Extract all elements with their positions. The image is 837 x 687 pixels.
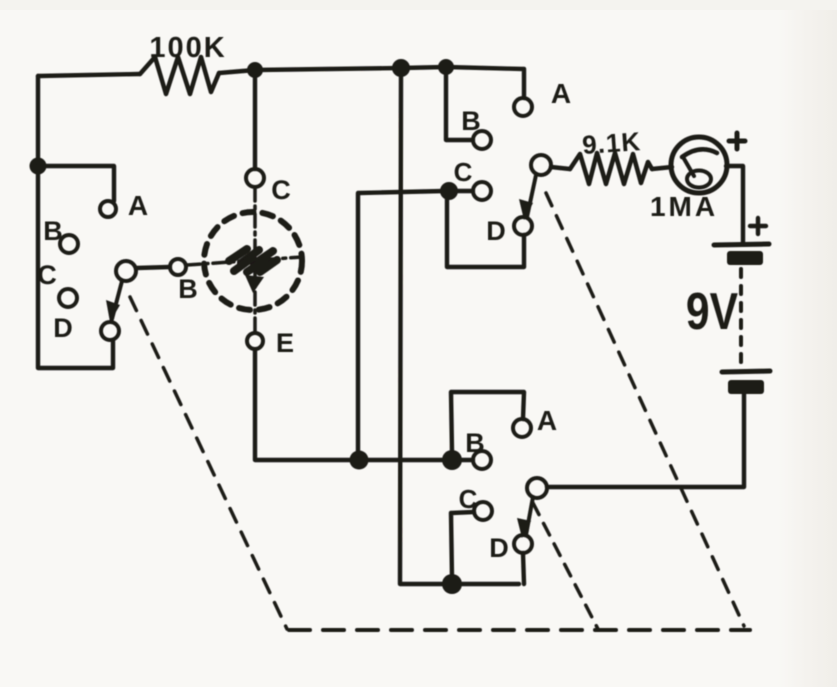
wire R2 to meter — [652, 167, 672, 169]
resistor R2 9.1K — [570, 126, 652, 184]
svg-text:B: B — [178, 274, 198, 304]
svg-text:D: D — [53, 313, 73, 343]
wire top-left horizontal — [38, 74, 140, 76]
wire vertical x358 — [356, 194, 360, 455]
battery B1 top cell plate — [714, 244, 769, 245]
wire J3 to S2 contact B — [446, 75, 473, 140]
wire emitter to bottom bus — [255, 350, 448, 460]
switch S3 contact B — [473, 451, 491, 469]
svg-text:A: A — [128, 190, 148, 221]
svg-text:C: C — [454, 157, 473, 187]
wire battery to S3 wiper — [547, 394, 744, 487]
node J5 — [440, 182, 458, 200]
svg-text:100K: 100K — [149, 32, 226, 64]
switch S1 contact A — [100, 201, 116, 217]
gang dashed line to S3 wiper — [533, 503, 598, 629]
svg-text:9.1K: 9.1K — [581, 126, 642, 160]
transistor Q1 centerline vertical — [253, 188, 257, 331]
svg-text:B: B — [43, 216, 63, 246]
svg-text:D: D — [489, 533, 509, 563]
wire left vertical top — [36, 76, 40, 166]
wire J6 to S3 contact B — [458, 458, 473, 462]
svg-text:C: C — [459, 484, 478, 514]
svg-text:C: C — [37, 260, 57, 290]
switch S1 wiper arrowhead — [106, 300, 120, 322]
resistor R1 100K — [140, 32, 227, 94]
wire bottom rail S3 — [400, 582, 519, 586]
wire J2 to J3 — [401, 67, 446, 68]
svg-text:B: B — [461, 106, 481, 136]
battery B1 bottom cell plate — [722, 371, 770, 372]
gang dashed line from S1 wiper — [130, 297, 287, 629]
meter M1 1MA — [650, 137, 727, 222]
switch S3 contact C — [474, 502, 492, 520]
svg-text:9V: 9V — [686, 283, 738, 341]
switch S2 contact D — [514, 217, 532, 235]
node J7 — [442, 574, 462, 594]
switch S1 contact C — [59, 289, 77, 307]
transistor Q1 junction scribble — [229, 249, 277, 272]
switch S3 wiper arrowhead — [517, 518, 531, 538]
wire J4 to switch S1 contact A — [38, 166, 114, 201]
svg-text:A: A — [551, 78, 571, 109]
transistor Q1 base terminal — [170, 259, 186, 275]
transistor Q1 emitter arrow — [245, 275, 264, 293]
battery B1 bottom cell bar — [728, 380, 764, 394]
transistor Q1 collector terminal — [246, 169, 264, 187]
switch S1 wiper pole — [116, 261, 136, 281]
wire J1 to J2 — [255, 68, 401, 70]
node J6 — [442, 450, 462, 470]
switch S3 contact D — [514, 535, 532, 553]
node J8 — [350, 451, 369, 470]
battery B1 middle dashed — [739, 269, 743, 364]
svg-text:C: C — [271, 175, 291, 205]
node J3 — [438, 59, 454, 75]
wire J7 to S3 contact C — [451, 512, 474, 578]
gang dashed line bottom horizontal — [289, 628, 750, 632]
wire J3 to switch S2 contact A — [446, 67, 524, 98]
wire J5 to S2 contact C — [455, 189, 473, 193]
switch S2 contact B — [473, 131, 491, 149]
svg-text:E: E — [276, 328, 294, 358]
wire vertical x401 long — [400, 75, 401, 583]
switch S3 wiper pole — [527, 478, 547, 498]
switch S3 wiper arm — [526, 497, 533, 535]
svg-text:D: D — [486, 216, 506, 246]
switch S1 wiper arm — [112, 281, 122, 319]
svg-text:1MA: 1MA — [650, 191, 718, 222]
battery B1 top cell bar — [727, 251, 763, 265]
transistor Q1 emitter terminal — [247, 333, 263, 349]
node J1 — [247, 62, 263, 78]
node J2 — [392, 59, 410, 77]
node J4 — [30, 158, 47, 175]
switch S2 contact A — [514, 98, 532, 116]
transistor Q1 socket dashed circle — [204, 212, 302, 310]
plus sign at meter — [729, 133, 745, 149]
plus sign at battery — [750, 218, 766, 234]
switch S2 wiper arrowhead — [519, 199, 533, 220]
transistor Q1 centerline horizontal — [187, 257, 302, 265]
switch S2 wiper pole — [531, 155, 551, 175]
svg-text:B: B — [465, 428, 485, 458]
switch S3 top loop wire — [451, 392, 524, 452]
wire S1 frame left-bottom — [38, 166, 113, 368]
wire x358 top to node J5 — [358, 191, 445, 193]
svg-text:A: A — [537, 405, 557, 436]
switch S1 contact D — [101, 322, 119, 340]
switch S3 contact A — [513, 419, 531, 437]
wire R1 to node J1 — [219, 70, 255, 73]
switch S2 contact C — [473, 182, 491, 200]
wire meter to battery top — [726, 166, 743, 243]
wire S2 contact D loop to J5 — [447, 197, 524, 267]
gang dashed line to S2 wiper — [546, 193, 744, 626]
wire S2 wiper to R2 — [551, 167, 570, 169]
wire S1 wiper to transistor base — [136, 267, 170, 268]
switch S2 wiper arm — [527, 175, 536, 217]
wire J1 to transistor collector — [253, 70, 257, 169]
switch S1 contact B — [60, 235, 78, 253]
wire S3 contact D down to rail — [523, 553, 524, 584]
